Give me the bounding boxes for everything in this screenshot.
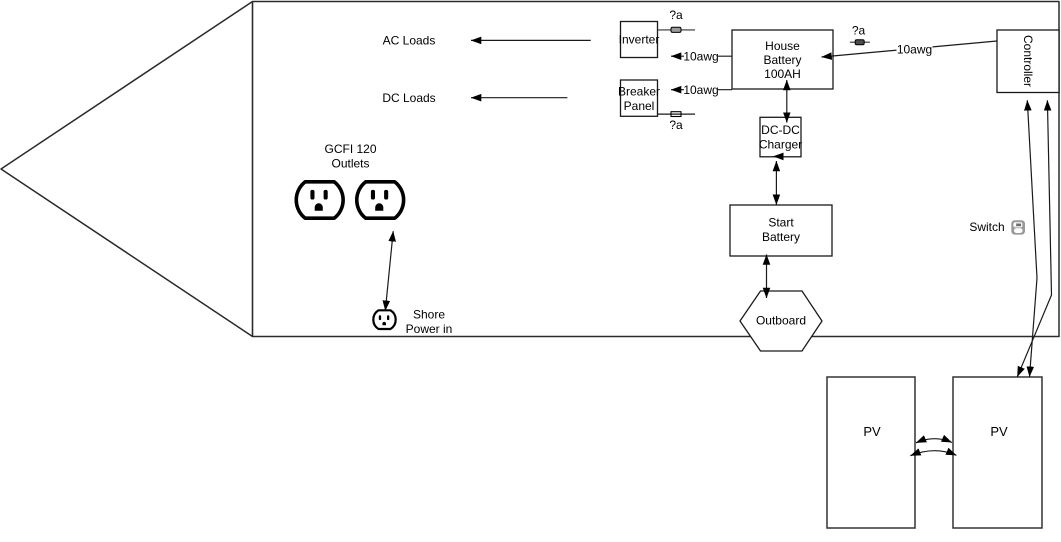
svg-text:Outlets: Outlets [331,157,369,171]
svg-text:Inverter: Inverter [619,33,660,47]
svg-text:Battery: Battery [762,230,800,244]
svg-text:Breaker: Breaker [618,84,660,98]
svg-text:GCFI 120: GCFI 120 [324,142,376,156]
svg-text:10awg: 10awg [683,49,718,63]
wire PV to PV upper (double arrow) [916,439,952,443]
box PV right [953,377,1042,528]
svg-text:Power in: Power in [406,322,453,336]
svg-text:100AH: 100AH [764,67,801,81]
box DC-DC Charger [760,117,801,157]
svg-text:AC Loads: AC Loads [383,33,436,47]
wire DC-DC charger to start battery (double arrow) [775,161,777,205]
svg-text:PV: PV [990,424,1008,439]
box PV left [827,377,915,528]
switch icon [1011,220,1025,234]
bow/body divider line [252,2,254,337]
box Start Battery [730,205,832,256]
wire controller to PV line 1 [1027,100,1037,377]
wire PV to PV lower (double arrow) [910,451,956,456]
svg-text:10awg: 10awg [683,83,718,97]
wire house battery to DC-DC charger (double arrow) [786,80,788,123]
wire shore power to outlet (double arrow) [385,231,393,311]
box House Battery 100AH [732,30,833,89]
box Inverter [621,22,658,58]
GCFI outlet 1 [296,182,343,218]
shore power outlet [373,310,395,329]
svg-text:Shore: Shore [413,308,445,322]
wire breaker panel to DC loads (arrow left) [471,97,567,99]
svg-text:?a: ?a [852,23,866,37]
fuse ?a at breaker panel [658,113,696,115]
wire controller to house battery 10awg [822,41,998,57]
wire house battery to breaker panel 10awg [671,89,732,91]
box Controller [997,30,1059,93]
svg-text:Panel: Panel [624,99,655,113]
boat hull outline [1,2,1059,337]
wire inverter to AC loads (arrow left) [471,39,591,41]
svg-text:Battery: Battery [763,53,801,67]
svg-text:Switch: Switch [969,220,1004,234]
svg-text:House: House [765,39,800,53]
svg-text:Charger: Charger [759,138,802,152]
box Breaker Panel [621,80,658,116]
svg-text:Outboard: Outboard [756,314,806,328]
fuse ?a at controller wire [850,41,870,43]
svg-text:?a: ?a [669,118,683,132]
svg-text:PV: PV [863,424,881,439]
svg-text:10awg: 10awg [897,43,932,57]
wire house battery to inverter 10awg [671,55,732,57]
wire controller to PV line 2 [1017,100,1051,377]
fuse ?a at inverter [658,29,696,31]
svg-text:DC-DC: DC-DC [761,123,800,137]
arrowhead into DC-DC bottom edge [773,153,784,161]
svg-text:Controller: Controller [1021,35,1035,87]
svg-text:?a: ?a [669,8,683,22]
svg-text:Start: Start [768,215,794,229]
GCFI outlet 2 [357,182,404,218]
wire start battery to outboard (double arrow) [766,255,768,299]
svg-text:DC Loads: DC Loads [382,91,435,105]
hexagon Outboard [740,291,822,351]
